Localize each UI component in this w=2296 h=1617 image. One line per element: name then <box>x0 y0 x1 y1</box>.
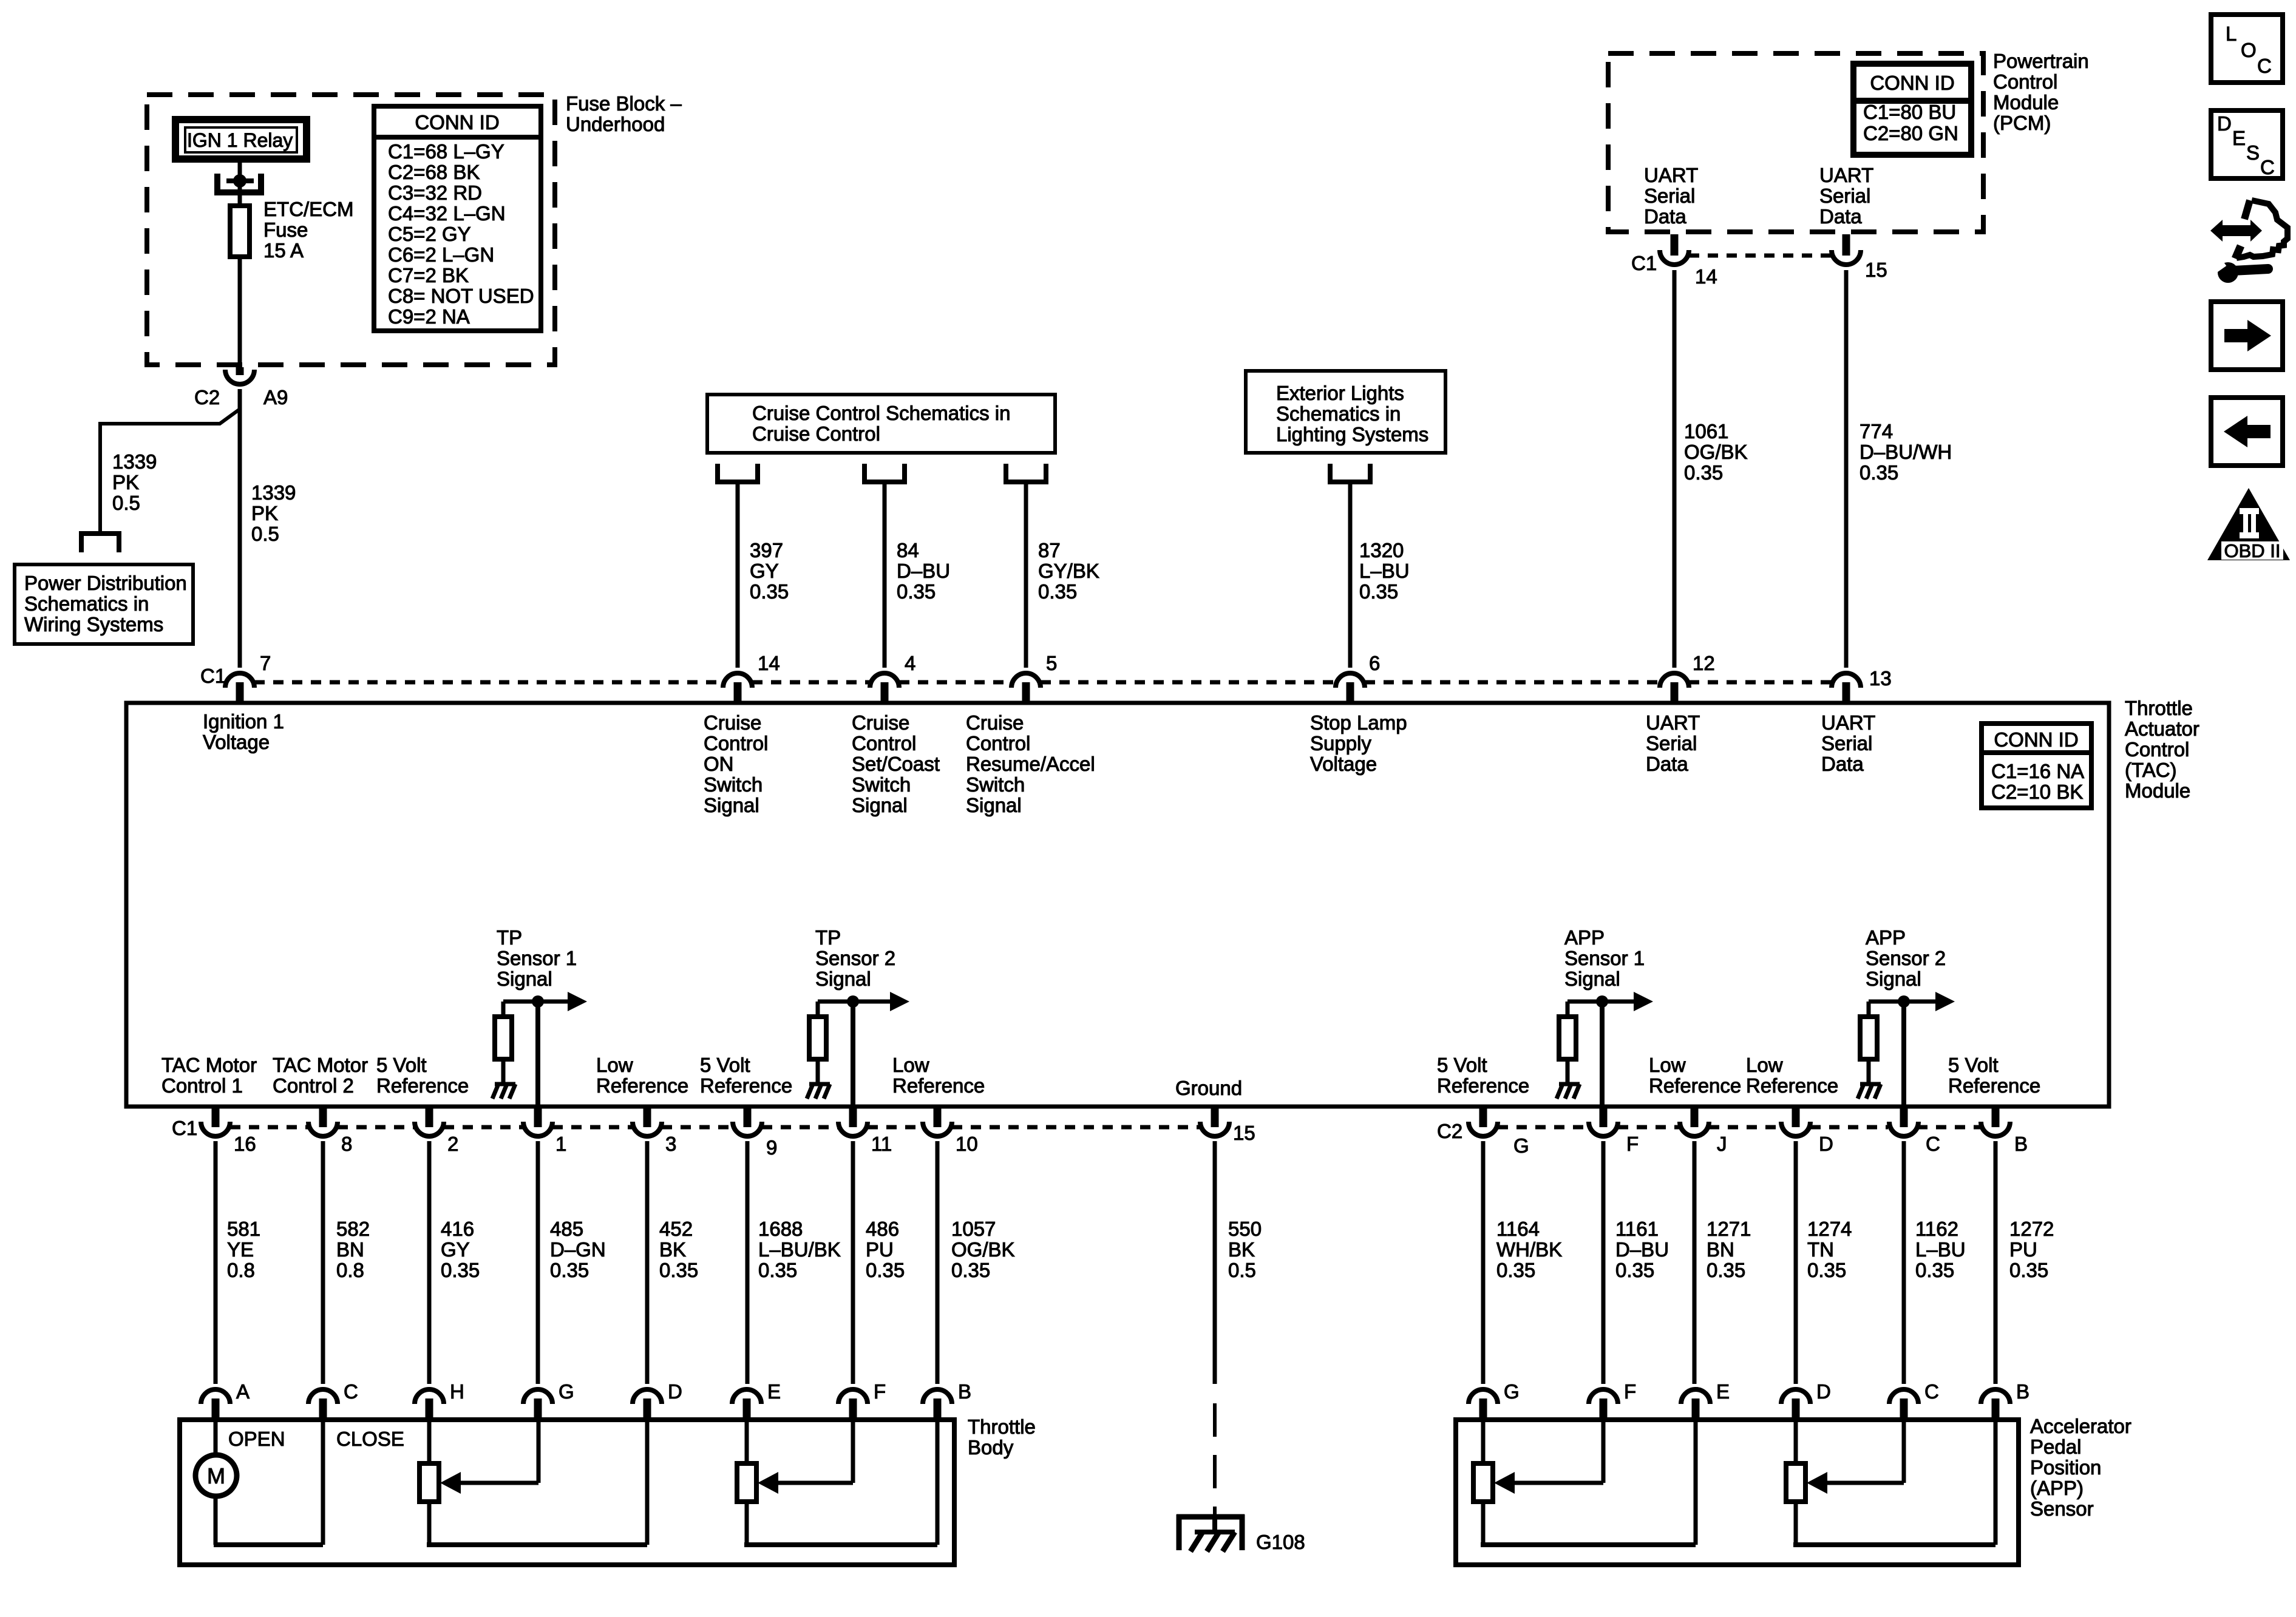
ground TP sensor 2 <box>807 1084 830 1099</box>
svg-text:84: 84 <box>897 539 919 561</box>
svg-text:ETC/ECM: ETC/ECM <box>263 198 354 220</box>
svg-text:0.35: 0.35 <box>897 580 936 603</box>
svg-text:Exterior Lights: Exterior Lights <box>1276 382 1404 404</box>
motor M throttle <box>195 1455 237 1496</box>
svg-text:OBD II: OBD II <box>2224 540 2280 561</box>
svg-text:10: 10 <box>956 1133 978 1155</box>
bracket stop lamp wire <box>1330 464 1370 482</box>
resistor APP sensor 2 <box>1860 1017 1877 1059</box>
svg-text:Reference: Reference <box>596 1074 688 1097</box>
loop D to B bottom wire <box>1793 1542 1995 1547</box>
svg-text:0.35: 0.35 <box>1359 580 1398 603</box>
svg-text:D–BU: D–BU <box>897 560 950 582</box>
svg-text:Serial: Serial <box>1819 185 1870 207</box>
svg-text:Reference: Reference <box>1746 1074 1838 1097</box>
component connector pin G <box>1469 1389 1498 1404</box>
resistor TP sensor 1 <box>495 1017 512 1059</box>
svg-text:13: 13 <box>1869 667 1892 690</box>
icon hand with wrench <box>2210 200 2288 283</box>
svg-text:CONN ID: CONN ID <box>415 111 499 134</box>
svg-text:3: 3 <box>665 1133 676 1155</box>
Throttle Body box <box>180 1420 954 1565</box>
svg-text:397: 397 <box>750 539 783 561</box>
TAC bottom connector pin 9 <box>733 1122 762 1136</box>
connector C2 pin A9 <box>225 370 254 384</box>
TAC top connector pin 12 <box>1660 673 1689 688</box>
svg-text:Low: Low <box>1746 1054 1783 1076</box>
Power Distribution reference box <box>15 564 193 644</box>
svg-text:Sensor 1: Sensor 1 <box>1564 947 1645 969</box>
svg-text:F: F <box>874 1380 886 1403</box>
svg-text:CLOSE: CLOSE <box>336 1428 404 1450</box>
wire branch to power distribution <box>100 409 240 534</box>
ground APP sensor 1 <box>1557 1084 1580 1099</box>
svg-text:BN: BN <box>336 1238 364 1261</box>
connector C2-A9 stub <box>236 367 244 375</box>
svg-text:C3=32 RD: C3=32 RD <box>388 181 482 204</box>
svg-text:1274: 1274 <box>1807 1218 1852 1240</box>
svg-text:Voltage: Voltage <box>1310 753 1377 775</box>
svg-text:BK: BK <box>659 1238 686 1261</box>
component connector pin F <box>838 1389 868 1404</box>
svg-text:TP: TP <box>497 926 522 949</box>
wire motor to loop <box>214 1496 218 1545</box>
svg-text:Resume/Accel: Resume/Accel <box>966 753 1095 775</box>
svg-text:5 Volt: 5 Volt <box>1948 1054 1999 1076</box>
TAC bottom connector pin D <box>1781 1122 1810 1136</box>
TP Sensor 1 signal node and arrow <box>503 1000 570 1004</box>
svg-text:Cruise Control Schematics in: Cruise Control Schematics in <box>752 402 1011 424</box>
svg-text:0.35: 0.35 <box>441 1259 480 1281</box>
svg-text:0.35: 0.35 <box>1860 461 1898 484</box>
svg-text:1164: 1164 <box>1496 1218 1540 1240</box>
icon LOC box <box>2211 15 2283 83</box>
svg-text:1272: 1272 <box>2009 1218 2054 1240</box>
wire relay to fuse <box>238 163 242 206</box>
PCM connector C1 pin 15 <box>1832 250 1861 265</box>
TAC bottom connector pin B <box>1981 1122 2010 1136</box>
wire 774 D-BU/WH <box>1844 270 1849 668</box>
svg-text:C5=2 GY: C5=2 GY <box>388 223 471 245</box>
svg-text:C2=10 BK: C2=10 BK <box>1991 781 2083 803</box>
svg-text:PK: PK <box>251 502 278 524</box>
svg-text:4: 4 <box>905 652 915 674</box>
svg-text:0.8: 0.8 <box>336 1259 364 1281</box>
svg-text:GY: GY <box>750 560 779 582</box>
TAC bottom connector pin 16 <box>201 1122 230 1136</box>
svg-text:BN: BN <box>1707 1238 1734 1261</box>
svg-text:TAC Motor: TAC Motor <box>161 1054 257 1076</box>
svg-text:A9: A9 <box>263 386 288 408</box>
TAC bottom connector pin 8 <box>308 1122 338 1136</box>
wire 1339 PK main down to pin 7 <box>238 389 242 668</box>
svg-text:416: 416 <box>441 1218 474 1240</box>
svg-text:0.35: 0.35 <box>951 1259 990 1281</box>
svg-text:Position: Position <box>2030 1456 2101 1479</box>
svg-text:C: C <box>2257 55 2272 77</box>
svg-text:C6=2 L–GN: C6=2 L–GN <box>388 243 494 266</box>
svg-text:C2=80 GN: C2=80 GN <box>1863 122 1958 144</box>
svg-text:C1: C1 <box>1631 252 1657 274</box>
svg-text:0.35: 0.35 <box>2009 1259 2048 1281</box>
svg-text:Low: Low <box>892 1054 929 1076</box>
svg-text:TP: TP <box>815 926 841 949</box>
component connector pin E <box>732 1389 761 1404</box>
ground G108 symbol <box>1177 1514 1245 1520</box>
svg-text:Set/Coast: Set/Coast <box>852 753 940 775</box>
svg-text:Voltage: Voltage <box>203 731 270 753</box>
svg-text:L–BU: L–BU <box>1359 560 1410 582</box>
svg-text:D: D <box>2217 112 2232 135</box>
svg-text:CONN ID: CONN ID <box>1994 728 2078 751</box>
icon OBD II triangle <box>2207 488 2290 560</box>
IGN 1 Relay box inner <box>185 127 297 152</box>
fuse terminal dot <box>226 178 254 183</box>
resistor APP sensor 1 <box>1559 1017 1576 1059</box>
svg-text:C7=2 BK: C7=2 BK <box>388 264 469 286</box>
svg-text:Signal: Signal <box>1866 968 1921 990</box>
fuse ETC/ECM 15A <box>230 206 250 257</box>
svg-text:D–BU/WH: D–BU/WH <box>1860 441 1952 463</box>
wire 1320 L-BU <box>1348 482 1353 668</box>
svg-text:WH/BK: WH/BK <box>1496 1238 1562 1261</box>
TAC bottom connector pin 2 <box>415 1122 444 1136</box>
motor loop bottom wire <box>214 1542 323 1547</box>
wire 84 D-BU <box>883 482 887 668</box>
svg-text:0.5: 0.5 <box>1228 1259 1256 1281</box>
svg-text:0.35: 0.35 <box>750 580 789 603</box>
svg-text:Low: Low <box>1649 1054 1686 1076</box>
svg-text:0.35: 0.35 <box>1496 1259 1535 1281</box>
svg-text:1320: 1320 <box>1359 539 1404 561</box>
svg-text:Serial: Serial <box>1821 732 1872 754</box>
svg-text:Signal: Signal <box>815 968 871 990</box>
svg-text:PU: PU <box>2009 1238 2037 1261</box>
svg-text:0.35: 0.35 <box>866 1259 905 1281</box>
component connector pin E <box>1681 1389 1710 1404</box>
svg-text:Signal: Signal <box>1564 968 1620 990</box>
svg-text:IGN 1 Relay: IGN 1 Relay <box>187 129 293 151</box>
svg-text:0.35: 0.35 <box>1684 461 1723 484</box>
loop E to B bottom wire <box>744 1542 937 1547</box>
svg-text:2: 2 <box>447 1133 458 1155</box>
svg-text:Cruise: Cruise <box>966 711 1024 734</box>
svg-text:Data: Data <box>1819 205 1862 228</box>
svg-text:F: F <box>1626 1133 1639 1155</box>
wire B low ref <box>936 1420 940 1545</box>
svg-text:Control: Control <box>704 732 768 754</box>
svg-text:Schematics in: Schematics in <box>24 592 149 615</box>
svg-text:B: B <box>2016 1380 2029 1403</box>
wire H to pot <box>427 1420 432 1463</box>
svg-text:Stop Lamp: Stop Lamp <box>1310 711 1407 734</box>
svg-text:L: L <box>2226 22 2237 45</box>
svg-text:C1=80 BU: C1=80 BU <box>1863 101 1956 123</box>
svg-text:OG/BK: OG/BK <box>1684 441 1748 463</box>
svg-text:485: 485 <box>550 1218 583 1240</box>
wire 550 BK dashed <box>1213 1403 1217 1514</box>
ground TP sensor 1 <box>492 1084 515 1099</box>
off-page bracket power distribution <box>81 534 119 552</box>
svg-text:1339: 1339 <box>112 450 157 473</box>
svg-text:Reference: Reference <box>376 1074 469 1097</box>
svg-text:0.35: 0.35 <box>1915 1259 1954 1281</box>
svg-text:Reference: Reference <box>1437 1074 1529 1097</box>
svg-text:APP: APP <box>1564 926 1605 949</box>
svg-text:1162: 1162 <box>1915 1218 1958 1240</box>
svg-text:774: 774 <box>1860 420 1893 442</box>
wire A to motor <box>214 1420 218 1455</box>
wire 397 GY <box>736 482 740 668</box>
svg-text:Actuator: Actuator <box>2125 717 2199 740</box>
PCM pin 15 stub <box>1843 234 1850 256</box>
loop H to D bottom wire <box>427 1542 647 1547</box>
svg-text:B: B <box>2014 1133 2028 1155</box>
wire G to pot APP1 <box>1481 1420 1486 1463</box>
svg-text:Pedal: Pedal <box>2030 1436 2081 1458</box>
svg-text:Sensor 2: Sensor 2 <box>1866 947 1946 969</box>
svg-text:TAC Motor: TAC Motor <box>273 1054 368 1076</box>
Accelerator Pedal Position sensor box <box>1456 1420 2019 1565</box>
svg-text:8: 8 <box>341 1133 352 1155</box>
svg-text:5: 5 <box>1046 652 1057 674</box>
svg-text:Data: Data <box>1821 753 1864 775</box>
svg-text:UART: UART <box>1644 164 1698 186</box>
Exterior Lights reference box <box>1246 371 1445 453</box>
potentiometer APP sensor 2 <box>1786 1463 1805 1502</box>
svg-text:Control 1: Control 1 <box>161 1074 243 1097</box>
svg-text:Body: Body <box>968 1436 1014 1459</box>
svg-text:Cruise Control: Cruise Control <box>752 422 880 445</box>
bracket cruise wire 397 <box>718 464 758 482</box>
svg-text:G: G <box>1504 1380 1520 1403</box>
svg-text:G108: G108 <box>1256 1531 1305 1553</box>
svg-text:PU: PU <box>866 1238 894 1261</box>
APP Sensor 1 signal node and arrow <box>1567 1000 1636 1004</box>
svg-text:C2=68 BK: C2=68 BK <box>388 161 480 183</box>
svg-text:C8= NOT USED: C8= NOT USED <box>388 285 534 307</box>
svg-text:5 Volt: 5 Volt <box>376 1054 427 1076</box>
svg-text:Accelerator: Accelerator <box>2030 1415 2131 1437</box>
svg-text:(APP): (APP) <box>2030 1477 2084 1499</box>
svg-text:Underhood: Underhood <box>566 113 665 135</box>
TAC top connector dashed bus C1 <box>254 680 723 685</box>
svg-text:0.35: 0.35 <box>1615 1259 1654 1281</box>
APP Sensor 2 signal node and arrow <box>1869 1000 1938 1004</box>
svg-text:1057: 1057 <box>951 1218 996 1240</box>
wire D below pot <box>1794 1502 1798 1545</box>
svg-text:Reference: Reference <box>700 1074 792 1097</box>
svg-text:Cruise: Cruise <box>852 711 909 734</box>
svg-text:Wiring Systems: Wiring Systems <box>24 613 163 636</box>
svg-text:Cruise: Cruise <box>704 711 761 734</box>
svg-text:15: 15 <box>1865 259 1887 281</box>
bracket cruise wire 87 <box>1006 464 1046 482</box>
svg-text:UART: UART <box>1821 711 1875 734</box>
svg-text:C2: C2 <box>1437 1120 1462 1142</box>
svg-text:A: A <box>236 1380 250 1403</box>
Cruise Control reference box <box>707 395 1055 453</box>
svg-text:Switch: Switch <box>704 773 763 796</box>
svg-text:Fuse Block –: Fuse Block – <box>566 92 682 115</box>
TAC bottom connector pin G <box>1469 1122 1498 1136</box>
wires TAC C1 to throttle body <box>214 1141 218 1384</box>
svg-text:Signal: Signal <box>966 794 1022 816</box>
wire 550 BK solid <box>1213 1141 1217 1384</box>
bracket cruise wire 84 <box>864 464 905 482</box>
TP Sensor 2 signal node and arrow <box>818 1000 892 1004</box>
svg-text:S: S <box>2246 141 2260 164</box>
svg-text:Control: Control <box>2125 738 2189 761</box>
svg-text:Switch: Switch <box>966 773 1025 796</box>
svg-text:Schematics in: Schematics in <box>1276 402 1401 425</box>
svg-text:GY/BK: GY/BK <box>1038 560 1099 582</box>
svg-text:(PCM): (PCM) <box>1993 112 2051 134</box>
svg-text:E: E <box>1716 1380 1730 1403</box>
svg-text:5 Volt: 5 Volt <box>700 1054 750 1076</box>
svg-text:0.35: 0.35 <box>1807 1259 1846 1281</box>
PCM CONN ID separator <box>1853 98 1971 104</box>
CONN ID table separator <box>374 135 541 140</box>
svg-text:GY: GY <box>441 1238 470 1261</box>
svg-text:O: O <box>2241 39 2257 61</box>
loop G to E bottom wire <box>1481 1542 1696 1547</box>
svg-text:9: 9 <box>766 1136 777 1159</box>
svg-text:15 A: 15 A <box>263 239 304 262</box>
TAC top connector pin 6 <box>1336 673 1365 688</box>
svg-text:L–BU/BK: L–BU/BK <box>758 1238 841 1261</box>
TAC bottom connector dashed bus C2 <box>1498 1125 1589 1130</box>
svg-text:5 Volt: 5 Volt <box>1437 1054 1487 1076</box>
svg-text:Throttle: Throttle <box>2125 697 2193 719</box>
svg-text:PK: PK <box>112 471 139 493</box>
svg-text:G: G <box>1513 1134 1529 1157</box>
svg-text:Data: Data <box>1646 753 1688 775</box>
svg-text:1339: 1339 <box>251 481 296 504</box>
PCM connector C1 pin 14 <box>1660 250 1689 265</box>
TAC bottom connector pin 1 <box>523 1122 552 1136</box>
resistor TP sensor 2 <box>809 1017 826 1059</box>
wire 87 GY/BK <box>1024 482 1028 668</box>
svg-text:Control 2: Control 2 <box>273 1074 354 1097</box>
fuse block underhood dashed box <box>147 95 555 365</box>
component connector pin C <box>308 1389 338 1404</box>
TAC bottom connector pin 3 <box>633 1122 662 1136</box>
svg-text:D–BU: D–BU <box>1615 1238 1669 1261</box>
svg-text:C4=32 L–GN: C4=32 L–GN <box>388 202 506 225</box>
svg-text:14: 14 <box>758 652 780 674</box>
svg-text:Reference: Reference <box>1649 1074 1741 1097</box>
svg-text:Control: Control <box>852 732 916 754</box>
svg-text:J: J <box>1717 1133 1727 1155</box>
wire G below pot <box>1481 1502 1486 1545</box>
ground APP sensor 2 <box>1858 1084 1881 1099</box>
svg-text:E: E <box>767 1380 781 1403</box>
wires TAC C2 to APP sensor <box>1481 1141 1486 1384</box>
svg-text:550: 550 <box>1228 1218 1262 1240</box>
wire fuse to connector C2 <box>238 257 242 367</box>
svg-text:Control: Control <box>966 732 1030 754</box>
svg-text:(TAC): (TAC) <box>2125 759 2177 781</box>
wire D to pot APP2 <box>1794 1420 1798 1463</box>
svg-text:Supply: Supply <box>1310 732 1371 754</box>
potentiometer APP sensor 1 <box>1473 1463 1493 1502</box>
svg-text:Module: Module <box>2125 779 2190 802</box>
TAC bottom connector pin 11 <box>838 1122 868 1136</box>
svg-text:Fuse: Fuse <box>263 219 308 241</box>
svg-text:Module: Module <box>1993 91 2059 114</box>
svg-text:OPEN: OPEN <box>228 1428 285 1450</box>
svg-text:C1: C1 <box>172 1117 197 1139</box>
svg-text:7: 7 <box>260 652 271 674</box>
potentiometer TP sensor 1 <box>419 1463 439 1502</box>
svg-text:Serial: Serial <box>1644 185 1695 207</box>
component connector pin B <box>923 1389 952 1404</box>
svg-text:6: 6 <box>1369 652 1380 674</box>
TAC bottom connector pin F <box>1589 1122 1618 1136</box>
svg-text:M: M <box>207 1463 225 1488</box>
svg-text:15: 15 <box>1233 1122 1255 1144</box>
wire E low ref APP <box>1694 1420 1698 1545</box>
svg-text:0.5: 0.5 <box>112 492 140 514</box>
svg-text:G: G <box>559 1380 574 1403</box>
wire C riser APP <box>1902 1420 1906 1483</box>
svg-text:87: 87 <box>1038 539 1061 561</box>
svg-text:BK: BK <box>1228 1238 1255 1261</box>
svg-text:14: 14 <box>1695 265 1717 288</box>
svg-text:Throttle: Throttle <box>968 1415 1036 1438</box>
svg-text:B: B <box>958 1380 971 1403</box>
svg-text:OG/BK: OG/BK <box>951 1238 1015 1261</box>
svg-text:582: 582 <box>336 1218 370 1240</box>
icon arrow right box <box>2211 302 2283 370</box>
svg-text:H: H <box>450 1380 464 1403</box>
svg-text:Sensor 2: Sensor 2 <box>815 947 895 969</box>
svg-text:UART: UART <box>1819 164 1873 186</box>
wire B 5V ref APP <box>1994 1420 1998 1545</box>
svg-text:452: 452 <box>659 1218 693 1240</box>
component connector pin G <box>523 1389 552 1404</box>
svg-text:C: C <box>1926 1133 1940 1155</box>
svg-text:C: C <box>344 1380 358 1403</box>
CONN ID table TAC <box>1982 724 2091 808</box>
CONN ID table fuse block <box>374 106 541 331</box>
svg-text:CONN ID: CONN ID <box>1870 72 1954 94</box>
svg-text:1161: 1161 <box>1615 1218 1659 1240</box>
svg-text:Signal: Signal <box>497 968 552 990</box>
TAC top connector pin 7 <box>225 673 254 688</box>
svg-text:Reference: Reference <box>892 1074 985 1097</box>
component connector pin F <box>1589 1389 1618 1404</box>
svg-text:Serial: Serial <box>1646 732 1697 754</box>
svg-text:Ground: Ground <box>1175 1077 1242 1099</box>
svg-text:Lighting Systems: Lighting Systems <box>1276 423 1428 446</box>
svg-text:486: 486 <box>866 1218 899 1240</box>
svg-text:TN: TN <box>1807 1238 1834 1261</box>
component connector pin H <box>415 1389 444 1404</box>
svg-text:C: C <box>2260 156 2275 178</box>
CONN ID table PCM <box>1853 64 1971 155</box>
wire G riser <box>537 1420 541 1483</box>
svg-text:1: 1 <box>555 1133 566 1155</box>
TAC bottom connector pin 15 <box>1200 1122 1229 1136</box>
svg-text:0.35: 0.35 <box>1038 580 1077 603</box>
svg-text:C1=68 L–GY: C1=68 L–GY <box>388 140 504 163</box>
TAC bottom connector pin 10 <box>923 1122 952 1136</box>
svg-text:Control: Control <box>1993 70 2057 93</box>
wire 1061 OG/BK <box>1673 270 1677 668</box>
svg-text:1271: 1271 <box>1707 1218 1751 1240</box>
